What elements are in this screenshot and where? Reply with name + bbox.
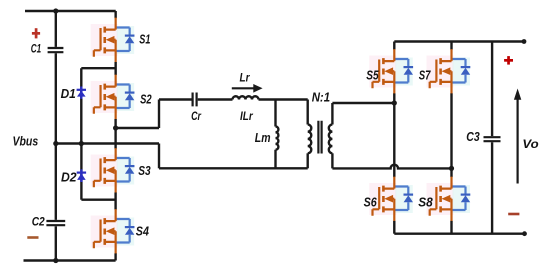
wire D2 anode tap xyxy=(81,198,115,200)
transistor S1 xyxy=(91,18,135,63)
wire secondary top to bridge leg 1 xyxy=(332,102,394,104)
transformer secondary winding xyxy=(329,103,333,168)
svg-text:C2: C2 xyxy=(32,216,46,228)
transistor S6 xyxy=(369,177,413,222)
svg-text:S5: S5 xyxy=(366,68,379,83)
plus sign input xyxy=(32,28,40,38)
wire tank top to Cr xyxy=(159,98,192,100)
wire top-left rail xyxy=(25,10,116,12)
svg-text:ILr: ILr xyxy=(240,109,254,123)
minus sign output xyxy=(508,213,519,216)
svg-text:S1: S1 xyxy=(139,31,150,46)
diode D1 xyxy=(77,68,86,143)
node Vbus midpoint xyxy=(53,141,58,146)
inductor Lm xyxy=(276,100,279,169)
transistor S8 xyxy=(427,177,471,222)
wire D1 cathode tap xyxy=(81,67,115,69)
node leg2 secondary junction xyxy=(449,166,454,171)
node output negative terminal xyxy=(522,231,527,236)
plus sign output xyxy=(504,56,513,65)
transistor S4 xyxy=(91,209,135,254)
svg-text:C3: C3 xyxy=(466,129,480,144)
wire bottom-left rail xyxy=(24,259,116,261)
wire leg1 node down to S6 drain xyxy=(393,103,395,177)
wire S7 source to leg2 node xyxy=(450,93,452,168)
transistor S2 xyxy=(91,75,135,120)
svg-text:Cr: Cr xyxy=(191,109,202,123)
node clamp diode midpoint xyxy=(79,141,84,146)
wire left capacitor rail middle xyxy=(55,53,57,220)
wire C3 upper xyxy=(491,42,493,137)
svg-text:N:1: N:1 xyxy=(312,90,330,104)
wire S7 drain from rail xyxy=(450,42,452,50)
svg-text:Vo: Vo xyxy=(522,137,538,151)
svg-text:Vbus: Vbus xyxy=(13,134,39,149)
diode D2 xyxy=(77,144,86,200)
wire Lr to transformer primary xyxy=(259,98,308,100)
wire S8 source to bottom rail xyxy=(450,221,452,234)
svg-text:S3: S3 xyxy=(138,163,151,178)
svg-text:S2: S2 xyxy=(140,92,152,107)
svg-text:S8: S8 xyxy=(418,195,433,210)
wire Vbus midpoint to bend xyxy=(56,142,159,144)
minus sign input xyxy=(27,236,38,239)
wire Cr to Lr xyxy=(198,98,233,100)
node bottom rail / C2 junction xyxy=(53,258,58,263)
wire S4 source to bottom rail xyxy=(114,253,116,260)
svg-text:C1: C1 xyxy=(31,43,41,55)
wire S6 source to bottom rail xyxy=(393,221,395,234)
svg-text:S7: S7 xyxy=(419,68,431,83)
svg-text:S6: S6 xyxy=(364,195,378,210)
wire C3 lower xyxy=(491,142,493,233)
transistor S7 xyxy=(427,49,471,94)
wire left capacitor rail lower xyxy=(55,226,57,260)
transistor S3 xyxy=(91,148,135,193)
transistor S5 xyxy=(369,49,413,94)
wire top-right rail xyxy=(394,40,524,42)
svg-text:Lm: Lm xyxy=(255,130,271,145)
node output positive terminal xyxy=(522,39,527,44)
Vo arrow xyxy=(514,89,521,184)
wire S2 source to switch node xyxy=(114,119,116,128)
transformer primary winding xyxy=(308,100,312,169)
wire midpoint bend down to tank return xyxy=(158,144,160,169)
wire bottom-right rail xyxy=(394,232,524,234)
wire S1 source to S2 drain xyxy=(114,62,116,75)
transformer core xyxy=(318,121,321,154)
wire S3 source to S4 drain xyxy=(114,193,116,210)
capacitor C3 xyxy=(484,137,501,141)
capacitor C2 xyxy=(46,221,65,225)
wire leg2 node down to S8 drain xyxy=(450,168,452,177)
capacitor Cr xyxy=(193,93,197,107)
wire switch node to S3 drain xyxy=(114,128,116,149)
node top rail / C1 junction xyxy=(53,8,58,13)
wire left capacitor rail upper xyxy=(55,11,57,47)
wire S5 source to leg1 node xyxy=(393,93,395,103)
wire tank return bottom xyxy=(159,167,308,169)
wire S5 drain from rail xyxy=(393,42,395,50)
inductor Lr xyxy=(233,96,259,99)
node switch node S2-S3 xyxy=(113,125,118,130)
wire switch node horizontal xyxy=(116,127,159,129)
wire S1 drain from rail xyxy=(114,11,116,18)
svg-text:S4: S4 xyxy=(136,223,150,238)
svg-text:D1: D1 xyxy=(61,86,76,101)
ILr current arrow xyxy=(232,84,263,93)
svg-text:D2: D2 xyxy=(61,169,77,184)
wire switch node riser xyxy=(158,100,160,129)
wire secondary bottom to bridge leg 2 with crossover hop xyxy=(332,165,451,169)
svg-text:Lr: Lr xyxy=(240,73,250,85)
node leg1 secondary junction xyxy=(392,100,397,105)
capacitor C1 xyxy=(48,48,64,52)
